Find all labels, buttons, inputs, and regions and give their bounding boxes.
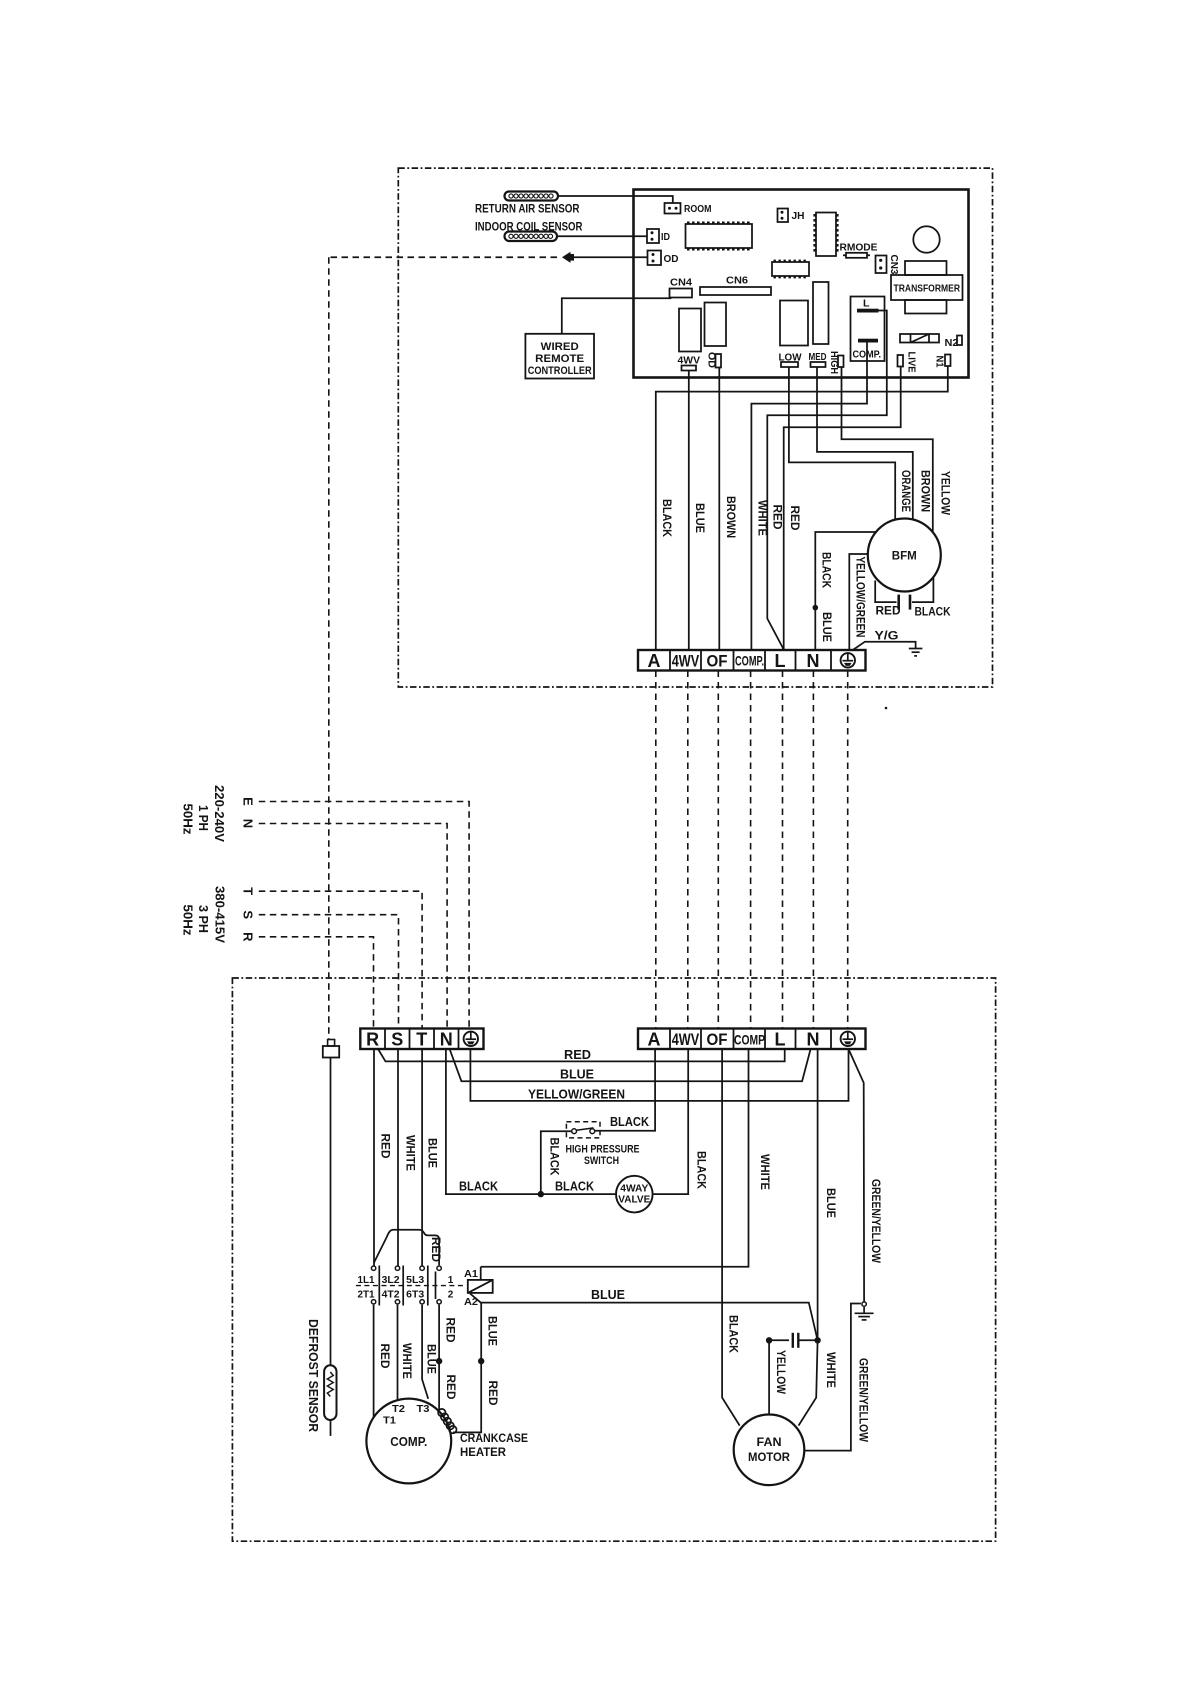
svg-text:Y/G: Y/G: [875, 629, 899, 643]
wire defrost sensor lead: [330, 1058, 332, 1366]
dashed wire terminal earth to earth: [847, 671, 849, 1029]
svg-text:380-415V: 380-415V: [213, 886, 228, 943]
wire BLACK switch down to valve line: [541, 1131, 572, 1194]
wire BLACK N1 to terminal A: [656, 366, 948, 650]
svg-text:WHITE: WHITE: [758, 1154, 772, 1190]
svg-text:BLACK: BLACK: [555, 1180, 594, 1194]
fan capacitor C2 plates: [792, 1333, 794, 1348]
svg-text:N: N: [241, 819, 256, 828]
TB1 dividers: [670, 650, 831, 671]
transformer T1: [891, 261, 963, 314]
svg-text:YELLOW/GREEN: YELLOW/GREEN: [854, 557, 868, 638]
svg-text:T: T: [416, 1030, 427, 1050]
svg-text:BROWN: BROWN: [919, 470, 933, 512]
wire BLUE TB3 N down to fan capacitor junction: [817, 1049, 819, 1340]
wire BLUE TB2 T down to contactor 5L3: [421, 1049, 423, 1266]
svg-text:T2: T2: [392, 1403, 405, 1415]
connector CN6: [700, 275, 771, 296]
svg-text:R: R: [241, 932, 256, 942]
pad N1: [934, 355, 951, 368]
svg-text:RED: RED: [379, 1134, 393, 1159]
pad HIGH: [828, 351, 844, 374]
svg-text:1 PH: 1 PH: [196, 805, 211, 831]
SECTION: indoor unit: [398, 168, 992, 687]
IC U1 (DIP horizontal): [686, 222, 753, 251]
svg-text:BLACK: BLACK: [660, 499, 674, 537]
junction dot blue/white: [814, 1337, 820, 1343]
svg-text:LIVE: LIVE: [906, 352, 917, 373]
dashed wire OD sensor line down to defrost plug: [328, 257, 330, 1040]
svg-text:OF: OF: [707, 653, 728, 671]
SECTION: wires pcb to strip, BFM: [656, 311, 953, 651]
svg-text:CONTROLLER: CONTROLLER: [528, 365, 592, 377]
wire OD plug to OD connector: [573, 256, 648, 258]
svg-text:CN3: CN3: [888, 255, 899, 275]
power feed labels: [181, 785, 256, 943]
PCB control board outline: [634, 190, 969, 378]
svg-text:BLUE: BLUE: [824, 1188, 838, 1218]
fan motor: [734, 1415, 805, 1486]
svg-text:N: N: [807, 651, 820, 671]
contactor KM1 pole 3 contacts (5L3/6T3): [420, 1266, 428, 1306]
svg-text:WIRED: WIRED: [541, 341, 579, 353]
wire BLUE 6T3 to compressor T3: [422, 1305, 428, 1399]
svg-text:COMP: COMP: [734, 1033, 765, 1048]
svg-text:220-240V: 220-240V: [212, 785, 227, 842]
capacitor C1 leads: [875, 581, 896, 603]
TB1 earth screw symbol: [841, 653, 855, 667]
svg-text:5L3: 5L3: [406, 1275, 424, 1286]
connector OD: [648, 251, 679, 266]
wire GREEN/YELLOW fan motor to ground point: [804, 1304, 861, 1451]
svg-text:SWITCH: SWITCH: [584, 1155, 619, 1167]
RMODE component: [840, 242, 878, 258]
junction dot yellow: [766, 1337, 772, 1343]
dashed power feed T: [259, 891, 422, 1028]
wire YELLOW/GREEN jumper earth to earth: [470, 1049, 848, 1101]
svg-text:REMOTE: REMOTE: [535, 353, 584, 365]
wire BLACK TB3 OF down to fan motor: [722, 1049, 740, 1426]
relay RY1 (4WV): [678, 309, 702, 371]
svg-text:S: S: [391, 1030, 403, 1050]
dashed wire terminal OF to OF: [717, 671, 719, 1029]
wire BROWN MED pad to BFM: [817, 367, 913, 520]
dashed power feed S: [259, 915, 399, 1029]
wire BLUE/RED heater return to A2 line: [453, 1303, 481, 1433]
wire RED aux 2 down to crankcase heater: [438, 1305, 440, 1412]
wire BLUE 4WV relay to terminal 4WV: [688, 371, 690, 651]
wire remote controller to CN4: [562, 298, 671, 334]
svg-text:BLUE: BLUE: [486, 1316, 500, 1346]
svg-text:COMP.: COMP.: [390, 1435, 427, 1449]
compressor COMP: [366, 1399, 451, 1484]
svg-text:S: S: [241, 910, 256, 919]
svg-text:BLACK: BLACK: [695, 1151, 709, 1189]
RED jumper 1L1 to aux 1: [374, 1230, 439, 1266]
svg-text:BLUE: BLUE: [591, 1288, 625, 1302]
wire BLACK terminal A to high pressure switch: [595, 1049, 655, 1131]
svg-text:BLACK: BLACK: [610, 1115, 649, 1129]
connector ROOM: [665, 203, 712, 215]
wire return air sensor to ROOM: [558, 196, 673, 203]
svg-text:OD: OD: [664, 254, 679, 265]
svg-text:RED: RED: [788, 506, 802, 531]
connector JH: [778, 209, 805, 223]
wire YELLOW capacitor to fan motor: [768, 1340, 770, 1414]
dashed wire terminal COMP to COMP: [750, 671, 752, 1029]
svg-text:2T1: 2T1: [358, 1290, 375, 1301]
motor BFM: [868, 519, 941, 592]
svg-text:6T3: 6T3: [406, 1290, 424, 1301]
svg-text:YELLOW/GREEN: YELLOW/GREEN: [528, 1088, 625, 1102]
svg-text:A: A: [648, 1030, 661, 1050]
svg-text:T1: T1: [383, 1415, 396, 1427]
svg-text:4T2: 4T2: [382, 1290, 400, 1301]
svg-text:CN6: CN6: [726, 275, 748, 287]
return air sensor probe: [505, 192, 559, 201]
svg-text:JH: JH: [792, 211, 805, 222]
pad LOW: [779, 352, 802, 368]
SECTION: top terminal strip: [638, 629, 922, 672]
contactor KM1 pole 1 contacts (1L1/2T1): [371, 1266, 379, 1306]
contactor KM1 pole 2 contacts (3L2/4T2): [395, 1266, 403, 1306]
connector CN3: [876, 255, 900, 275]
svg-text:RMODE: RMODE: [840, 242, 878, 254]
svg-text:RED: RED: [429, 1237, 441, 1262]
relay RY3: [780, 301, 808, 346]
svg-text:BLUE: BLUE: [693, 503, 707, 533]
wire Y/G earth to ground: [853, 642, 916, 650]
SECTION: contactor compressor fan: [306, 1040, 874, 1486]
svg-text:BROWN: BROWN: [724, 496, 738, 538]
IC U3 (DIP small): [772, 260, 809, 279]
wired remote controller box: [525, 334, 594, 379]
svg-text:BLACK: BLACK: [915, 605, 951, 619]
SECTION: sensors left: [331, 192, 673, 379]
wire RED TB2 R down to contactor 1L1: [373, 1049, 375, 1266]
svg-text:RED: RED: [378, 1344, 392, 1369]
dashed wire to OD plug: [331, 256, 562, 258]
dashed power feed N: [259, 824, 447, 1029]
svg-text:ORANGE: ORANGE: [899, 470, 913, 512]
defrost sensor plug: [323, 1040, 339, 1058]
terminal strip TB2 (R S T N earth) outline: [360, 1029, 483, 1050]
svg-text:BFM: BFM: [892, 551, 917, 563]
wire WHITE junction to fan motor: [799, 1340, 818, 1425]
SECTION: bottom strips and wiring: [360, 1029, 883, 1426]
IC U2 (DIP vertical): [813, 213, 838, 257]
dashed wire terminal A to A: [655, 671, 657, 1029]
wire BLACK terminal N to 4way valve: [446, 1049, 616, 1194]
relay RY4: [813, 282, 829, 344]
wire RED L contact to terminal L: [767, 311, 887, 651]
indoor unit enclosure (dash-dot border): [398, 168, 992, 687]
junction dot switch/valve line: [538, 1191, 544, 1197]
dashed wire terminal N to N: [812, 671, 814, 1029]
svg-text:T3: T3: [417, 1403, 430, 1415]
svg-text:T: T: [241, 887, 256, 895]
svg-text:MOTOR: MOTOR: [748, 1450, 790, 1464]
terminal strip TB1 outline: [638, 650, 866, 671]
wire BLUE jumper N to N: [450, 1049, 811, 1081]
svg-text:50Hz: 50Hz: [181, 905, 196, 936]
svg-text:YELLOW: YELLOW: [774, 1350, 788, 1395]
svg-text:VALVE: VALVE: [618, 1195, 650, 1206]
svg-text:L: L: [775, 1030, 786, 1050]
wire RED jumper R to L: [378, 1049, 785, 1061]
TB2 dividers: [385, 1029, 459, 1050]
contactor linkage dashed line: [356, 1285, 463, 1287]
wire BLACK BFM to terminal N: [815, 532, 876, 650]
wire WHITE TB3 COMP down to contactor A1: [481, 1049, 749, 1267]
svg-text:GREEN/YELLOW: GREEN/YELLOW: [857, 1358, 871, 1443]
svg-text:YELLOW: YELLOW: [939, 471, 953, 516]
svg-text:OF: OF: [707, 1031, 728, 1049]
svg-text:DEFROST SENSOR: DEFROST SENSOR: [306, 1319, 321, 1433]
ground symbol: [909, 649, 923, 656]
svg-text:COMP.: COMP.: [735, 654, 764, 669]
pad LIVE: [898, 352, 917, 373]
relay RY2 (OD): [705, 303, 727, 369]
svg-text:ID: ID: [661, 232, 670, 243]
svg-text:BLUE: BLUE: [425, 1344, 439, 1374]
wire YELLOW HIGH pad to BFM capacitor: [842, 367, 933, 533]
svg-text:BLACK: BLACK: [820, 552, 834, 588]
contactor coil A1/A2: [464, 1268, 493, 1308]
svg-text:3L2: 3L2: [382, 1275, 400, 1286]
svg-text:RED: RED: [444, 1375, 458, 1400]
defrost sensor body: [324, 1365, 336, 1420]
capacitor C1 plates: [897, 595, 900, 610]
svg-text:50Hz: 50Hz: [181, 804, 196, 835]
wire defrost sensor tail: [330, 1420, 332, 1436]
svg-text:4WV: 4WV: [672, 1031, 700, 1049]
wire RED LIVE to terminal L: [784, 367, 901, 651]
svg-text:N1: N1: [934, 356, 945, 368]
svg-text:4WV: 4WV: [672, 653, 700, 671]
svg-text:BLACK: BLACK: [459, 1180, 498, 1194]
svg-text:1: 1: [448, 1275, 454, 1286]
connector ID: [647, 229, 670, 243]
svg-text:WHITE: WHITE: [824, 1352, 838, 1388]
crankcase heater coil: [438, 1409, 456, 1433]
svg-text:RED: RED: [771, 505, 785, 530]
wire indoor coil sensor to ID: [557, 235, 647, 237]
4 way valve solenoid: [616, 1176, 653, 1213]
svg-text:R: R: [366, 1030, 379, 1050]
wire RED 2T1 to compressor T1: [373, 1305, 375, 1418]
connector CN4: [670, 277, 693, 298]
svg-text:HIGH PRESSURE: HIGH PRESSURE: [566, 1144, 640, 1156]
pad MED: [809, 351, 827, 367]
dashed wire terminal L to L: [782, 671, 784, 1029]
svg-text:2: 2: [448, 1290, 454, 1301]
indoor coil sensor probe: [505, 232, 558, 242]
round component (buzzer): [913, 226, 939, 252]
svg-text:A1: A1: [464, 1268, 478, 1280]
SECTION: outdoor unit: [232, 978, 995, 1541]
wire YELLOW/GREEN BFM to terminal earth: [849, 554, 868, 650]
junction dot (black/blue splice): [813, 605, 819, 611]
SECTION: pcb components: [634, 190, 969, 378]
svg-text:FAN: FAN: [757, 1435, 782, 1449]
terminal strip TB3 (A 4WV OF COMP L N earth) outline: [638, 1029, 866, 1050]
svg-text:N: N: [440, 1030, 453, 1050]
wire ORANGE LOW pad to BFM: [789, 367, 895, 521]
wire BLUE coil A2 to fan junction: [470, 1294, 818, 1341]
fan capacitor C2 left lead: [769, 1339, 789, 1341]
svg-text:RETURN AIR SENSOR: RETURN AIR SENSOR: [475, 202, 580, 216]
svg-text:4WAY: 4WAY: [620, 1184, 648, 1195]
svg-text:A: A: [648, 651, 661, 671]
wire GREEN/YELLOW TB3 earth down to ground point: [849, 1049, 865, 1302]
svg-text:RED: RED: [486, 1381, 500, 1406]
OD plug connector: [562, 252, 574, 263]
svg-text:GREEN/YELLOW: GREEN/YELLOW: [869, 1179, 883, 1264]
wire BROWN OD relay to terminal OF: [718, 367, 720, 651]
dashed power feed E: [259, 802, 469, 1029]
svg-text:1L1: 1L1: [358, 1275, 375, 1286]
ground terminal circle: [862, 1302, 866, 1306]
svg-text:RED: RED: [564, 1048, 591, 1062]
wire BLACK terminal 4WV to valve: [653, 1049, 689, 1194]
svg-text:N: N: [807, 1030, 820, 1050]
svg-text:3 PH: 3 PH: [196, 905, 211, 933]
wire WHITE TB2 S down to contactor 3L2: [397, 1049, 399, 1266]
svg-text:L: L: [863, 298, 870, 310]
svg-text:E: E: [241, 797, 256, 806]
speck: [885, 707, 888, 710]
svg-text:BLACK: BLACK: [727, 1315, 741, 1353]
svg-text:CRANKCASE: CRANKCASE: [460, 1431, 528, 1445]
junction dot (blue/red splice): [478, 1358, 484, 1364]
svg-text:WHITE: WHITE: [404, 1135, 418, 1171]
svg-text:ROOM: ROOM: [684, 203, 712, 215]
wire coil A1 up to WHITE feed: [480, 1267, 482, 1280]
svg-text:L: L: [775, 651, 786, 671]
wire WHITE 4T2 to compressor T2: [397, 1305, 399, 1400]
TB2 earth screw symbol: [464, 1032, 478, 1046]
junction dot (red splice): [436, 1358, 442, 1364]
svg-text:CN4: CN4: [670, 277, 692, 289]
TB3 earth screw symbol: [841, 1032, 855, 1046]
wire WHITE COMP relay to terminal COMP: [751, 343, 867, 651]
outdoor unit enclosure (dash-dot border): [232, 978, 995, 1541]
SECTION: interconnect dashed: [259, 257, 848, 1040]
dashed power feed R: [259, 937, 374, 1029]
svg-text:BLACK: BLACK: [548, 1138, 562, 1176]
svg-text:BLUE: BLUE: [820, 612, 834, 642]
high pressure switch S1: [566, 1122, 640, 1167]
ground symbol: [855, 1307, 874, 1320]
contactor KM1 aux contacts (1/2): [436, 1266, 442, 1304]
svg-text:HEATER: HEATER: [460, 1445, 506, 1459]
svg-text:TRANSFORMER: TRANSFORMER: [894, 283, 961, 295]
fuse F1 (N2): [900, 334, 962, 349]
fan capacitor C2 right lead: [798, 1339, 817, 1341]
relay RY5 (COMP with L contact): [851, 297, 885, 362]
svg-text:BLUE: BLUE: [560, 1068, 594, 1082]
TB3 dividers: [670, 1029, 831, 1050]
svg-text:RED: RED: [876, 604, 901, 618]
dashed wire terminal 4WV to 4WV: [687, 671, 689, 1029]
svg-text:BLUE: BLUE: [426, 1138, 440, 1168]
svg-text:WHITE: WHITE: [400, 1343, 414, 1379]
svg-text:RED: RED: [444, 1318, 458, 1343]
